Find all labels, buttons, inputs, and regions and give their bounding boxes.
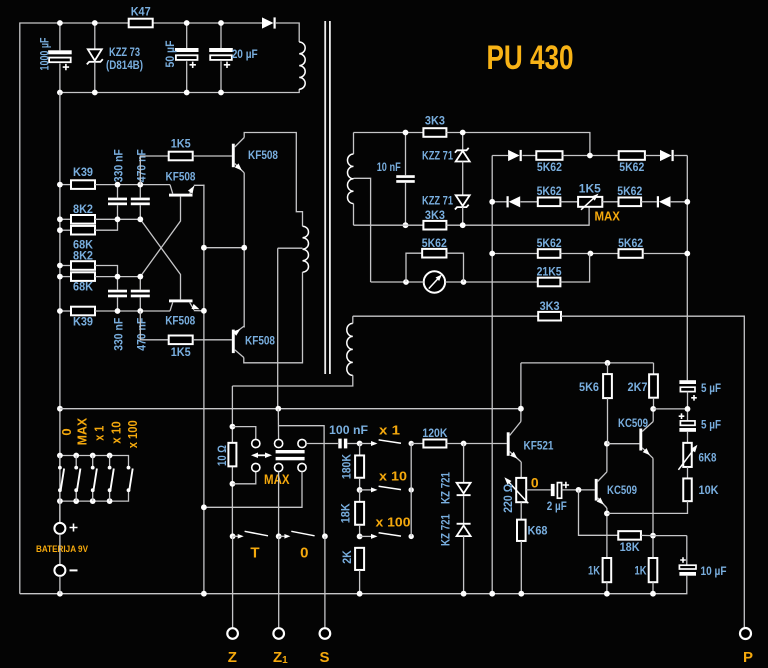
wire — [563, 155, 619, 157]
node — [489, 591, 495, 597]
capacitor 100 nF — [338, 439, 341, 449]
node — [230, 481, 236, 487]
node — [92, 20, 98, 26]
capacitor 50 µF — [175, 48, 199, 52]
svg-text:KC509: KC509 — [618, 416, 648, 430]
node — [460, 130, 466, 136]
node — [137, 308, 143, 314]
svg-text:2K7: 2K7 — [628, 380, 648, 394]
wire — [645, 155, 660, 157]
wire — [520, 502, 522, 520]
terminal S — [320, 628, 331, 639]
node — [90, 453, 96, 459]
wire range switch common — [410, 444, 412, 537]
wire — [653, 363, 655, 374]
wire 10ohm bypass top — [232, 427, 255, 440]
node — [684, 199, 690, 205]
transformer primary winding 1 — [299, 42, 305, 89]
transformer primary winding 2 — [303, 226, 309, 272]
node — [357, 591, 363, 597]
svg-text:18K: 18K — [620, 540, 640, 554]
node — [604, 591, 610, 597]
capacitor 10 nF — [396, 175, 415, 178]
switch x 100 — [360, 535, 376, 537]
node — [107, 453, 113, 459]
wire — [117, 277, 119, 290]
wire — [607, 363, 609, 374]
wire — [606, 444, 608, 472]
svg-text:180K: 180K — [339, 454, 353, 479]
wire — [607, 398, 609, 444]
wire — [95, 276, 140, 278]
wire — [186, 61, 188, 92]
resistor 1K5 — [169, 336, 193, 345]
svg-text:5K62: 5K62 — [422, 236, 447, 250]
wire — [520, 541, 522, 594]
wire bottom rail — [20, 576, 687, 594]
node — [218, 20, 224, 26]
node — [57, 20, 63, 26]
svg-text:10 nF: 10 nF — [377, 160, 401, 174]
wire — [652, 582, 654, 594]
node — [650, 533, 656, 539]
node — [587, 153, 593, 159]
node — [218, 90, 224, 96]
wire — [359, 570, 361, 594]
wire collector Q4 — [235, 350, 244, 358]
wire row1 — [492, 155, 508, 157]
svg-text:5K62: 5K62 — [618, 236, 643, 250]
svg-text:5 µF: 5 µF — [701, 418, 721, 432]
node — [57, 90, 63, 96]
node — [518, 406, 524, 412]
resistor 8K2 — [71, 261, 95, 270]
node — [518, 591, 524, 597]
wire output row — [353, 315, 538, 317]
wire — [60, 184, 71, 186]
wire — [140, 311, 168, 340]
node — [604, 511, 610, 517]
wire rail to MAX switch — [277, 409, 279, 440]
svg-text:8K2: 8K2 — [73, 248, 93, 262]
wire — [95, 266, 118, 277]
wire — [347, 443, 359, 445]
svg-text:3K3: 3K3 — [425, 208, 445, 222]
resistor — [228, 443, 236, 467]
node — [73, 453, 79, 459]
svg-text:KF508: KF508 — [166, 170, 196, 184]
wire emitter KF521 — [510, 452, 522, 463]
svg-text:470 nF: 470 nF — [134, 318, 148, 351]
svg-text:68K: 68K — [73, 279, 93, 293]
contact circle — [252, 439, 260, 447]
wire — [94, 23, 96, 49]
svg-text:MAX: MAX — [264, 472, 290, 487]
wire — [463, 496, 465, 523]
node — [57, 406, 63, 412]
capacitor 330 nF bottom — [108, 290, 127, 293]
svg-text:x 10: x 10 — [379, 469, 407, 484]
wire long supply rail — [60, 408, 521, 410]
diode — [507, 196, 509, 207]
zener diode KZZ 73 (D814B) — [88, 49, 102, 60]
wire — [520, 462, 522, 478]
transistor Q4 KF508 power bottom — [232, 330, 235, 354]
transistor KC509 upper — [639, 429, 642, 451]
slider double arrow — [254, 454, 270, 456]
svg-text:100 nF: 100 nF — [329, 423, 368, 437]
svg-text:KZ 721: KZ 721 — [438, 472, 452, 504]
wire emitter KC509 upper — [642, 448, 653, 458]
node — [588, 251, 594, 257]
wire — [139, 297, 141, 311]
svg-text:5K62: 5K62 — [537, 236, 562, 250]
resistor — [517, 520, 526, 541]
wire MAX bottom to emitter rail — [204, 472, 302, 508]
node — [137, 182, 143, 188]
svg-text:1K: 1K — [635, 564, 647, 578]
node — [73, 498, 79, 504]
wire — [359, 478, 361, 490]
wire — [60, 310, 71, 312]
node — [57, 453, 63, 459]
node — [115, 216, 121, 222]
diode — [508, 150, 519, 161]
svg-text:220 Ω: 220 Ω — [501, 483, 515, 512]
wire shunt right — [447, 253, 464, 282]
svg-text:2 µF: 2 µF — [547, 499, 567, 513]
wire — [359, 525, 361, 537]
node — [461, 441, 467, 447]
wire — [140, 156, 168, 185]
node — [275, 406, 281, 412]
node — [201, 308, 207, 314]
wire emitter rail vertical — [203, 185, 205, 594]
node — [201, 504, 207, 510]
wire filter bottom rail — [60, 89, 299, 93]
wire — [405, 133, 407, 176]
wire row3 — [492, 253, 538, 255]
svg-text:21K5: 21K5 — [537, 264, 562, 278]
node — [576, 487, 582, 493]
wire MAX switch to S — [279, 426, 325, 537]
svg-text:KF508: KF508 — [245, 334, 275, 348]
wire top rail to bridge — [446, 133, 590, 156]
node — [57, 216, 63, 222]
node — [605, 360, 611, 366]
svg-text:10 Ω: 10 Ω — [215, 445, 229, 466]
wire to 100nF — [306, 443, 338, 445]
transistor KF521 — [507, 432, 510, 456]
wire collector KC509 lower — [598, 472, 607, 482]
wire secondary1 center tap to meter — [354, 178, 371, 282]
node — [115, 182, 121, 188]
svg-text:P: P — [743, 649, 753, 666]
svg-text:8K2: 8K2 — [73, 202, 93, 216]
terminal P — [740, 628, 751, 639]
node — [57, 263, 63, 269]
svg-text:1K5: 1K5 — [579, 182, 601, 196]
node — [403, 279, 409, 285]
capacitor 1000 µF — [48, 50, 72, 54]
wire — [95, 310, 170, 312]
wire emitter Q1 — [235, 164, 245, 173]
node — [57, 182, 63, 188]
wire left supply rail — [59, 93, 61, 523]
wire to P terminal — [561, 316, 744, 628]
switch x 1 — [360, 443, 376, 445]
wire — [411, 443, 423, 445]
wire — [462, 162, 464, 196]
wire — [220, 23, 222, 48]
node — [57, 591, 63, 597]
svg-text:20 µF: 20 µF — [232, 47, 258, 61]
terminal battery + — [54, 523, 65, 534]
resistor 5K62 — [619, 249, 643, 258]
wire — [186, 23, 188, 48]
svg-text:0: 0 — [531, 475, 539, 491]
svg-text:x 1: x 1 — [92, 426, 107, 441]
wire base row KF521 — [446, 443, 506, 445]
svg-text:Z: Z — [228, 649, 237, 666]
wire — [522, 155, 536, 157]
wire meter left — [371, 281, 424, 283]
wire to Z1 — [278, 536, 280, 628]
node — [115, 274, 121, 280]
slider bars MAX — [276, 450, 305, 453]
transformer core — [324, 21, 326, 374]
wire emitter KC509 lower — [598, 498, 607, 508]
resistor 5K62 — [619, 198, 642, 207]
wire — [463, 536, 465, 594]
diode KZ 721 top — [457, 483, 471, 494]
transistor Q1 KF508 power top — [232, 144, 235, 168]
node — [685, 406, 691, 412]
svg-text:5K62: 5K62 — [537, 160, 562, 174]
resistor — [603, 558, 612, 582]
wire collector Q1 to primary2 top — [244, 133, 302, 227]
node — [107, 498, 113, 504]
wire — [353, 133, 355, 155]
wire — [687, 467, 689, 479]
capacitor 470 nF bottom — [131, 290, 150, 293]
resistor 68K — [71, 272, 95, 281]
wire rotary bottom rail — [60, 491, 129, 501]
wire — [59, 501, 61, 523]
wire measurement chain vertical — [231, 386, 233, 536]
wire — [95, 218, 140, 220]
zener diode KZZ 71 top — [455, 148, 469, 153]
svg-text:MAX: MAX — [594, 209, 620, 224]
svg-text:470 nF: 470 nF — [134, 149, 148, 182]
diode — [657, 196, 659, 207]
node — [115, 308, 121, 314]
svg-text:x 100: x 100 — [125, 420, 140, 448]
transformer secondary winding 2 — [347, 323, 353, 375]
wire — [139, 205, 141, 219]
wire row2 — [492, 201, 506, 203]
wire to S — [324, 536, 326, 628]
resistor 68K — [71, 226, 95, 235]
svg-text:1K5: 1K5 — [171, 137, 191, 151]
terminal Z — [227, 628, 238, 639]
resistor — [603, 374, 612, 398]
wire amp top rail — [521, 362, 654, 364]
diode — [660, 150, 672, 161]
wire — [359, 490, 361, 502]
svg-text:KF521: KF521 — [524, 439, 554, 453]
wire — [606, 582, 608, 594]
wire to KC509 upper base — [607, 443, 640, 445]
node — [461, 591, 467, 597]
node — [460, 222, 466, 228]
node — [241, 245, 247, 251]
resistor 1K5 — [169, 152, 193, 161]
resistor 3K3 — [423, 221, 446, 230]
wire bridge right vertical — [686, 156, 688, 381]
node — [650, 591, 656, 597]
wire — [95, 219, 118, 230]
resistor — [649, 558, 658, 582]
svg-text:330 nF: 330 nF — [111, 318, 125, 351]
svg-text:KZZ 73: KZZ 73 — [109, 45, 140, 59]
node — [357, 534, 363, 540]
wire — [94, 62, 96, 93]
contact circle — [252, 463, 260, 471]
wire secondary2 bottom — [232, 375, 352, 386]
switch x 10 — [360, 489, 376, 491]
wire left border + top rail — [20, 23, 129, 594]
wire bridge left vertical — [491, 156, 493, 594]
svg-text:5 µF: 5 µF — [701, 381, 721, 395]
wire — [59, 23, 61, 50]
wire collector KF521 — [510, 422, 521, 436]
wire — [560, 253, 618, 255]
zener diode KZZ 71 bottom — [456, 195, 470, 206]
resistor 5K62 — [536, 151, 562, 160]
wire emitter Q3 — [190, 302, 194, 309]
wire — [653, 408, 687, 410]
wire — [520, 201, 537, 203]
svg-text:KZZ 71: KZZ 71 — [422, 149, 453, 163]
svg-text:KC509: KC509 — [607, 483, 637, 497]
wire — [220, 61, 222, 92]
wire — [59, 64, 61, 93]
svg-text:3K3: 3K3 — [425, 114, 445, 128]
wire — [462, 207, 464, 225]
node — [604, 441, 610, 447]
svg-text:(D814B): (D814B) — [106, 58, 143, 72]
node — [230, 533, 236, 539]
meter M — [424, 271, 445, 292]
contact circle — [298, 463, 306, 471]
svg-text:1K: 1K — [588, 564, 600, 578]
resistor — [355, 548, 364, 570]
node — [57, 498, 63, 504]
node — [230, 424, 236, 430]
svg-text:6K8: 6K8 — [699, 451, 717, 465]
contact circle — [275, 463, 283, 471]
wire — [462, 133, 464, 151]
svg-text:KZ 721: KZ 721 — [438, 514, 452, 546]
svg-text:5K62: 5K62 — [537, 184, 562, 198]
wire — [405, 183, 407, 225]
wire — [653, 398, 655, 409]
wire collector Q3 — [170, 302, 173, 311]
wire emitter rail right — [243, 173, 245, 328]
wire amp left vertical — [520, 363, 522, 422]
svg-text:10 µF: 10 µF — [701, 564, 727, 578]
node — [137, 216, 143, 222]
resistor 3K3 — [538, 312, 561, 321]
resistor — [683, 478, 692, 501]
node — [489, 251, 495, 257]
wire — [686, 536, 688, 566]
node — [357, 487, 363, 493]
node — [403, 222, 409, 228]
node — [403, 130, 409, 136]
node — [92, 90, 98, 96]
wire — [359, 444, 361, 456]
wire — [139, 185, 141, 198]
node — [57, 227, 63, 233]
wire — [59, 534, 61, 565]
capacitor 5 µF upper — [679, 380, 696, 384]
resistor — [618, 531, 641, 540]
node — [57, 274, 63, 280]
node — [184, 20, 190, 26]
capacitor 2 µF — [551, 484, 555, 496]
svg-text:KZZ 71: KZZ 71 — [422, 194, 453, 208]
wire base Q4 — [193, 339, 232, 341]
resistor 5K62 — [422, 249, 446, 258]
svg-text:x 100: x 100 — [376, 515, 411, 530]
wire primary2 center tap — [278, 247, 303, 249]
wire — [139, 277, 141, 290]
svg-text:K39: K39 — [73, 315, 93, 329]
svg-text:S: S — [319, 649, 329, 666]
svg-text:MAX: MAX — [75, 418, 90, 446]
wire — [674, 155, 687, 157]
wire — [602, 201, 618, 203]
wire secondary1 top rail — [354, 132, 424, 134]
resistor — [355, 502, 364, 525]
resistor 3K3 — [423, 128, 446, 137]
resistor — [355, 455, 364, 477]
node — [276, 533, 282, 539]
wire — [353, 204, 355, 226]
wire — [59, 576, 61, 594]
svg-text:330 nF: 330 nF — [111, 149, 125, 182]
resistor 5K62 — [538, 198, 561, 207]
svg-text:PU 430: PU 430 — [487, 39, 574, 77]
contact circle — [298, 439, 306, 447]
svg-text:10K: 10K — [699, 483, 719, 497]
transformer secondary winding 1 — [348, 154, 354, 204]
svg-text:K39: K39 — [73, 165, 93, 179]
svg-text:BATERIJA 9V: BATERIJA 9V — [36, 544, 89, 555]
wire — [60, 265, 71, 267]
svg-text:x 1: x 1 — [379, 422, 400, 437]
terminal Z1 — [273, 628, 284, 639]
wire emitter tie — [204, 247, 244, 249]
wire — [687, 392, 689, 421]
resistor — [683, 443, 692, 467]
capacitor 330 nF top — [108, 198, 127, 201]
wire collector Q1 — [235, 138, 245, 148]
capacitor 10 µF — [680, 557, 686, 563]
wire — [671, 201, 688, 203]
